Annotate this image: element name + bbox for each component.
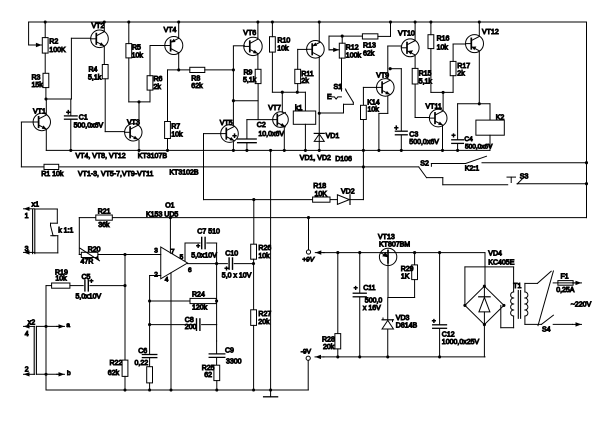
svg-text:VT4: VT4 bbox=[164, 27, 177, 34]
svg-text:500,0x6V: 500,0x6V bbox=[74, 123, 104, 130]
svg-text:5,0 x 10V: 5,0 x 10V bbox=[222, 273, 252, 280]
svg-text:7: 7 bbox=[171, 249, 175, 256]
svg-text:VT6: VT6 bbox=[243, 30, 256, 37]
svg-text:S1: S1 bbox=[334, 84, 343, 91]
svg-text:100k: 100k bbox=[346, 53, 362, 60]
svg-text:1: 1 bbox=[25, 213, 29, 220]
svg-text:x2: x2 bbox=[28, 319, 36, 326]
svg-text:4: 4 bbox=[165, 276, 169, 283]
svg-text:2: 2 bbox=[154, 271, 158, 278]
svg-text:10,0x6V: 10,0x6V bbox=[258, 131, 284, 138]
svg-text:20k: 20k bbox=[258, 319, 270, 326]
svg-text:T1: T1 bbox=[513, 283, 521, 290]
svg-text:2: 2 bbox=[25, 367, 29, 374]
svg-text:R17: R17 bbox=[457, 63, 470, 70]
svg-text:10k: 10k bbox=[258, 253, 270, 260]
svg-text:120k: 120k bbox=[192, 305, 208, 312]
svg-text:+9V: +9V bbox=[302, 256, 315, 263]
svg-text:-9V: -9V bbox=[301, 348, 312, 355]
svg-text:R29: R29 bbox=[401, 266, 414, 273]
svg-text:62k: 62k bbox=[191, 83, 203, 90]
svg-text:200: 200 bbox=[185, 324, 197, 331]
svg-text:500,0x6V: 500,0x6V bbox=[409, 139, 439, 146]
svg-text:R16: R16 bbox=[437, 36, 450, 43]
svg-text:C3: C3 bbox=[409, 132, 418, 139]
svg-text:10K: 10K bbox=[315, 191, 328, 198]
svg-text:~220V: ~220V bbox=[571, 302, 592, 309]
svg-text:500,0x6V: 500,0x6V bbox=[465, 143, 493, 150]
svg-text:C2: C2 bbox=[257, 122, 266, 129]
svg-text:R15: R15 bbox=[419, 70, 432, 77]
svg-text:R2: R2 bbox=[49, 39, 58, 46]
svg-text:2k: 2k bbox=[154, 84, 162, 91]
svg-text:R22: R22 bbox=[110, 360, 123, 367]
svg-text:VT3: VT3 bbox=[127, 120, 140, 127]
svg-text:3300: 3300 bbox=[226, 358, 242, 365]
svg-text:62: 62 bbox=[204, 372, 212, 379]
svg-text:R1 10k: R1 10k bbox=[41, 171, 64, 178]
svg-text:F1: F1 bbox=[561, 274, 569, 281]
svg-text:x1: x1 bbox=[32, 202, 39, 209]
svg-text:R3: R3 bbox=[32, 74, 41, 81]
svg-text:R20: R20 bbox=[88, 246, 101, 253]
svg-text:R6: R6 bbox=[154, 76, 163, 83]
svg-text:0,25A: 0,25A bbox=[556, 287, 575, 294]
svg-text:4: 4 bbox=[25, 331, 29, 338]
svg-text:10k: 10k bbox=[368, 107, 380, 114]
svg-text:5: 5 bbox=[180, 254, 184, 261]
svg-text:a: a bbox=[66, 322, 70, 329]
svg-text:5,1k: 5,1k bbox=[243, 77, 257, 84]
svg-text:10k: 10k bbox=[132, 52, 144, 59]
svg-text:R18: R18 bbox=[313, 183, 326, 190]
svg-text:20k: 20k bbox=[323, 344, 335, 351]
svg-text:KT3107B: KT3107B bbox=[138, 153, 168, 160]
svg-text:D106: D106 bbox=[335, 156, 352, 163]
svg-text:3: 3 bbox=[25, 246, 29, 253]
svg-text:+: + bbox=[394, 125, 398, 132]
svg-text:VD1: VD1 bbox=[326, 133, 340, 140]
svg-text:5,0x10V: 5,0x10V bbox=[191, 253, 217, 260]
svg-text:+: + bbox=[66, 110, 70, 117]
svg-text:15k: 15k bbox=[32, 82, 44, 89]
svg-text:k1: k1 bbox=[295, 105, 303, 112]
svg-text:VT13: VT13 bbox=[378, 234, 395, 241]
svg-text:KT3102B: KT3102B bbox=[169, 169, 199, 176]
svg-text:K14: K14 bbox=[367, 99, 380, 106]
svg-text:C7 510: C7 510 bbox=[197, 229, 220, 236]
svg-text:VT11: VT11 bbox=[426, 104, 442, 111]
svg-text:+: + bbox=[225, 265, 229, 272]
svg-text:D814B: D814B bbox=[396, 323, 418, 330]
svg-text:VT9: VT9 bbox=[376, 73, 389, 80]
svg-text:S2: S2 bbox=[420, 160, 429, 167]
svg-text:R10: R10 bbox=[277, 37, 290, 44]
svg-text:VT2: VT2 bbox=[92, 23, 105, 30]
svg-text:5,1k: 5,1k bbox=[419, 78, 433, 85]
svg-text:C6: C6 bbox=[138, 348, 147, 355]
svg-text:5,1k: 5,1k bbox=[88, 74, 102, 81]
svg-text:10k: 10k bbox=[55, 276, 67, 283]
svg-text:R13: R13 bbox=[363, 42, 376, 49]
svg-text:R9: R9 bbox=[244, 69, 253, 76]
svg-text:1000,0x25V: 1000,0x25V bbox=[442, 339, 480, 346]
svg-text:R21: R21 bbox=[98, 209, 111, 216]
svg-text:x 16V: x 16V bbox=[363, 305, 381, 312]
svg-text:b: b bbox=[67, 370, 71, 377]
svg-text:VT12: VT12 bbox=[482, 29, 499, 36]
svg-text:VD1, VD2: VD1, VD2 bbox=[300, 155, 331, 162]
svg-text:C8: C8 bbox=[185, 317, 194, 324]
svg-text:1K: 1K bbox=[401, 274, 410, 281]
svg-text:k 1:1: k 1:1 bbox=[58, 227, 73, 234]
svg-text:+: + bbox=[452, 132, 456, 139]
svg-text:+: + bbox=[233, 133, 237, 140]
svg-text:+: + bbox=[432, 318, 436, 325]
svg-text:R5: R5 bbox=[132, 45, 141, 52]
svg-text:62k: 62k bbox=[363, 50, 375, 57]
svg-text:VT1-3, VT5-7,VT9-VT11: VT1-3, VT5-7,VT9-VT11 bbox=[78, 171, 153, 178]
svg-text:3: 3 bbox=[154, 248, 158, 255]
svg-text:R27: R27 bbox=[258, 311, 271, 318]
svg-text:500,0: 500,0 bbox=[365, 298, 383, 305]
svg-text:K153 UD5: K153 UD5 bbox=[146, 211, 178, 218]
svg-text:R24: R24 bbox=[192, 291, 205, 298]
svg-text:36k: 36k bbox=[98, 222, 110, 229]
svg-text:K2:1: K2:1 bbox=[465, 165, 480, 172]
svg-text:47R: 47R bbox=[81, 259, 94, 266]
svg-text:K2: K2 bbox=[496, 115, 505, 122]
svg-text:KT807BM: KT807BM bbox=[379, 242, 410, 249]
svg-text:VD2: VD2 bbox=[341, 189, 355, 196]
svg-text:O1: O1 bbox=[165, 203, 174, 210]
svg-text:C5: C5 bbox=[82, 274, 91, 281]
svg-text:C11: C11 bbox=[363, 285, 375, 292]
svg-text:VT5: VT5 bbox=[220, 120, 233, 127]
svg-text:R4: R4 bbox=[89, 67, 98, 74]
svg-text:10k: 10k bbox=[171, 132, 183, 139]
svg-text:S4: S4 bbox=[542, 326, 551, 333]
svg-text:C1: C1 bbox=[79, 115, 88, 122]
svg-text:62k: 62k bbox=[108, 370, 120, 377]
svg-text:R12: R12 bbox=[346, 45, 359, 52]
svg-text:R8: R8 bbox=[191, 75, 200, 82]
svg-text:VT1: VT1 bbox=[33, 108, 46, 115]
svg-text:5,0x10V: 5,0x10V bbox=[76, 293, 102, 300]
svg-text:C4: C4 bbox=[464, 136, 473, 143]
svg-text:S3: S3 bbox=[520, 173, 529, 180]
svg-text:R7: R7 bbox=[171, 124, 180, 131]
svg-text:C12: C12 bbox=[442, 332, 455, 339]
svg-text:10k: 10k bbox=[277, 45, 289, 52]
svg-text:10k: 10k bbox=[437, 44, 449, 51]
svg-text:VT10: VT10 bbox=[398, 31, 415, 38]
svg-text:C10: C10 bbox=[225, 250, 238, 257]
svg-text:0,22: 0,22 bbox=[135, 360, 149, 367]
svg-text:R25: R25 bbox=[202, 365, 215, 372]
svg-text:E: E bbox=[327, 94, 332, 101]
svg-text:100K: 100K bbox=[49, 47, 66, 54]
svg-text:C9: C9 bbox=[225, 347, 234, 354]
svg-text:VD3: VD3 bbox=[396, 315, 410, 322]
svg-text:6: 6 bbox=[188, 267, 192, 274]
svg-text:VD4: VD4 bbox=[488, 251, 502, 258]
svg-text:+: + bbox=[196, 243, 200, 250]
svg-text:VT4, VT8, VT12: VT4, VT8, VT12 bbox=[76, 153, 126, 160]
svg-text:KC405E: KC405E bbox=[488, 259, 514, 266]
svg-text:2k: 2k bbox=[457, 71, 465, 78]
svg-text:VT7: VT7 bbox=[268, 105, 281, 112]
svg-text:2k: 2k bbox=[301, 78, 309, 85]
svg-text:R28: R28 bbox=[322, 336, 335, 343]
svg-text:+: + bbox=[354, 285, 358, 292]
svg-text:R26: R26 bbox=[258, 245, 271, 252]
